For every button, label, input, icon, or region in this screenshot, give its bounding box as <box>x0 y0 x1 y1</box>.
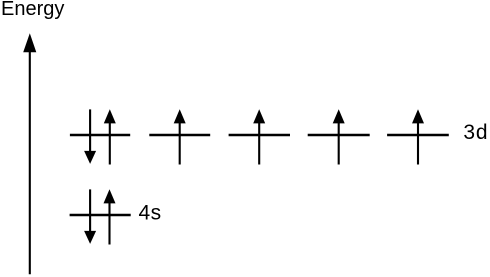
3d orbital line 2 <box>149 134 210 137</box>
up-spin electron arrow, 3d orbital 4 <box>333 109 345 164</box>
energy axis (vertical arrow) <box>23 33 36 274</box>
down-spin electron arrow, 4s orbital <box>84 189 96 244</box>
axis label "Energy" <box>1 0 64 20</box>
up-spin electron arrow, 4s orbital <box>104 189 116 244</box>
svg-text:Energy: Energy <box>1 0 64 20</box>
up-spin electron arrow, 3d orbital 2 <box>174 109 186 164</box>
up-spin electron arrow, 3d orbital 5 <box>412 109 424 164</box>
svg-text:4s: 4s <box>139 202 162 225</box>
3d orbital line 5 <box>387 134 449 137</box>
svg-text:3d: 3d <box>463 121 488 144</box>
up-spin electron arrow, 3d orbital 1 <box>104 109 116 164</box>
4s orbital line <box>70 214 131 217</box>
label "3d" <box>463 121 488 144</box>
3d orbital line 4 <box>308 134 370 137</box>
3d orbital line 3 <box>229 134 290 137</box>
up-spin electron arrow, 3d orbital 3 <box>253 109 265 164</box>
3d orbital line 1 <box>70 134 130 137</box>
label "4s" <box>139 202 162 225</box>
down-spin electron arrow, 3d orbital 1 <box>84 109 96 163</box>
